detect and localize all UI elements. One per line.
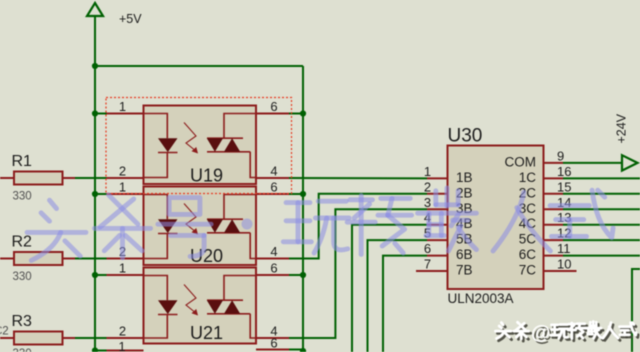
svg-text:R3: R3 [12,313,33,330]
svg-text:U30: U30 [448,126,483,147]
svg-text:4: 4 [270,244,277,259]
svg-text:7: 7 [424,257,431,272]
svg-text:1B: 1B [456,170,473,185]
svg-text:2: 2 [424,179,431,194]
svg-text:2: 2 [119,324,126,339]
svg-text:6: 6 [424,241,431,256]
svg-text:1C: 1C [519,170,537,185]
svg-text:U19: U19 [190,166,223,186]
svg-text:9: 9 [557,148,564,163]
svg-text:330: 330 [13,348,32,352]
svg-text:330: 330 [13,191,32,203]
svg-text:1: 1 [424,164,431,179]
svg-text:C2: C2 [0,326,9,338]
svg-text:330: 330 [13,271,32,283]
svg-text:4: 4 [270,164,277,179]
svg-text:R1: R1 [12,153,33,170]
svg-text:15: 15 [557,179,571,194]
svg-text:+5V: +5V [119,12,142,26]
svg-text:ULN2003A: ULN2003A [448,291,514,306]
svg-text:1: 1 [119,99,126,114]
svg-text:7B: 7B [456,263,473,278]
svg-text:1: 1 [119,180,126,195]
svg-text:2: 2 [119,164,126,179]
svg-text:6: 6 [270,336,277,351]
svg-text:3: 3 [424,195,431,210]
svg-text:11: 11 [557,241,571,256]
svg-text:6B: 6B [456,247,473,262]
svg-text:10: 10 [557,257,571,272]
svg-text:6: 6 [270,261,277,276]
svg-text:6: 6 [270,180,277,195]
svg-text:@: @ [531,322,551,344]
svg-text:6: 6 [270,99,277,114]
svg-text:+24V: +24V [615,113,629,143]
svg-text:1: 1 [119,261,126,276]
svg-text:16: 16 [557,164,571,179]
svg-text:U21: U21 [190,323,223,343]
svg-text:COM: COM [505,154,537,169]
svg-text:R2: R2 [12,234,33,251]
svg-text:7C: 7C [519,263,537,278]
svg-text:6C: 6C [519,247,537,262]
svg-text:1: 1 [118,339,125,352]
